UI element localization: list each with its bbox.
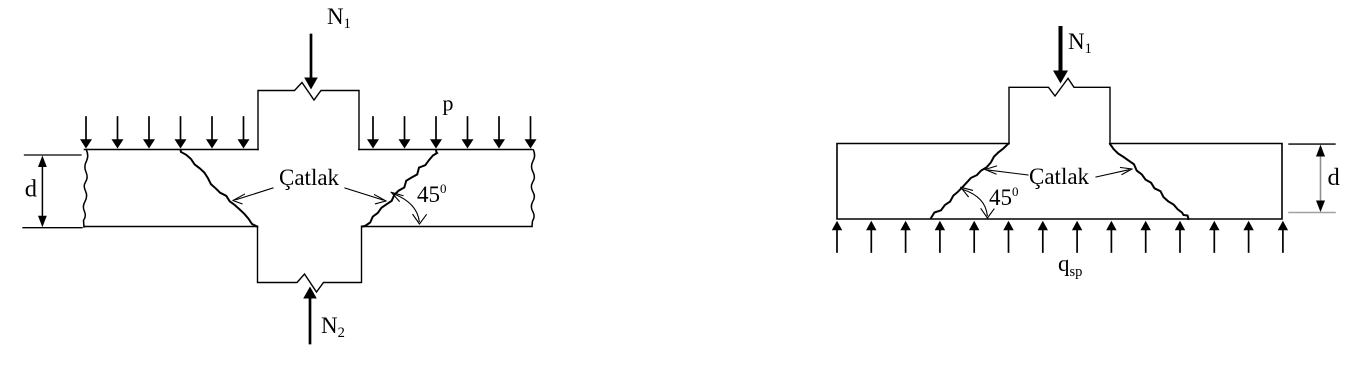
svg-text:450: 450 bbox=[989, 184, 1019, 210]
dimension d (left figure): bottom tick bbox=[23, 227, 82, 229]
angle arc 45deg (right figure) bbox=[961, 187, 994, 218]
leader arrow from Catlak to left crack (right figure) bbox=[985, 166, 1028, 175]
svg-text:N1: N1 bbox=[1068, 29, 1092, 57]
punching crack left (right figure) bbox=[931, 144, 1008, 218]
svg-text:N2: N2 bbox=[321, 313, 345, 341]
slab top line left part (left figure) bbox=[85, 149, 259, 151]
slab right torn edge (left figure) bbox=[531, 150, 534, 226]
slab left torn edge (left figure) bbox=[83, 150, 87, 227]
slab top line right part (left figure) bbox=[359, 149, 532, 151]
svg-text:p: p bbox=[443, 91, 454, 116]
svg-text:Çatlak: Çatlak bbox=[279, 165, 340, 190]
svg-text:450: 450 bbox=[417, 181, 447, 207]
slab bottom line right part (left figure) bbox=[362, 226, 532, 228]
column outline with break symbol (right figure) bbox=[1009, 78, 1110, 143]
footing slab outline (right figure) bbox=[837, 144, 1282, 220]
distributed load arrows p (left figure, left of column) bbox=[80, 117, 250, 149]
slab bottom line left part (left figure) bbox=[84, 226, 258, 228]
dimension d (left figure): double arrow bbox=[38, 156, 47, 228]
svg-text:qsp: qsp bbox=[1058, 251, 1082, 280]
force arrow N2 (left figure) bbox=[303, 287, 317, 344]
soil pressure arrows q_sp (right figure) bbox=[832, 221, 1288, 252]
punching crack left (left figure) bbox=[181, 150, 258, 227]
punching crack right (left figure) bbox=[362, 150, 437, 227]
distributed load arrows p (left figure, right of column) bbox=[367, 117, 537, 149]
svg-text:d: d bbox=[25, 176, 37, 203]
upper column outline with break symbol (left figure) bbox=[258, 83, 359, 150]
punching crack right (right figure) bbox=[1110, 144, 1189, 219]
svg-text:N1: N1 bbox=[327, 4, 351, 32]
svg-text:Çatlak: Çatlak bbox=[1029, 164, 1090, 189]
svg-text:d: d bbox=[1328, 164, 1340, 191]
dimension d (right figure): top tick bbox=[1289, 143, 1335, 145]
dimension d (right figure): bottom tick bbox=[1289, 212, 1335, 214]
angle arc 45deg (left figure) bbox=[391, 192, 426, 224]
leader arrow from Catlak to right crack (left figure) bbox=[345, 188, 386, 204]
force arrow N1 (left figure) bbox=[304, 35, 318, 90]
force arrow N1 (right figure) bbox=[1053, 28, 1068, 84]
dimension d (left figure): top tick bbox=[25, 154, 82, 156]
lower column outline with break symbol (left figure) bbox=[258, 227, 362, 293]
dimension d (right figure): double arrow bbox=[1316, 145, 1325, 212]
leader arrow from Catlak to left crack (left figure) bbox=[233, 188, 273, 204]
leader arrow from Catlak to right crack (right figure) bbox=[1096, 168, 1132, 178]
